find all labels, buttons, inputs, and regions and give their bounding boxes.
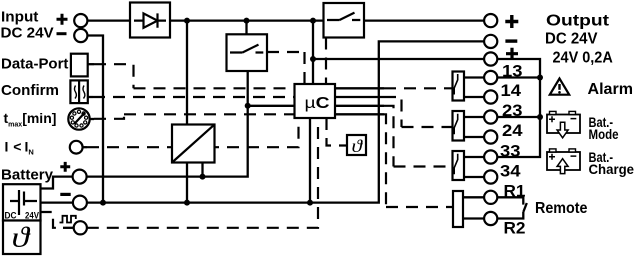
wire dashed output switch control [325,38,327,85]
wire dashed confirm to uC [93,96,295,98]
battery temperature sensor T2 box [3,221,41,255]
wire battery sense to uC pin [248,105,295,107]
battery B1 box with capacitor symbol [3,184,41,220]
switch S2 battery switch box [227,34,268,71]
wire converter bottom-left stub to 0V rail [186,163,188,203]
confirm button box [70,80,87,103]
data-port connector box [71,54,88,77]
terminal output +24V 0,2A [484,52,497,65]
wire pulse terminal left stub [63,227,74,229]
wire output switch to output+ terminal [364,19,484,21]
svg-text:DC: DC [5,211,17,221]
svg-text:Mode: Mode [589,126,619,142]
wire dashed battery box to pulse terminal [40,212,62,228]
wire aux +24V 0,2A rail [313,58,484,60]
wire relay1 contact to terminal 14 [464,96,484,98]
wire dashed uC to relay2 [384,97,453,127]
wire uC right pin 2 solid run [335,96,384,98]
terminal input+ [74,14,87,27]
wire I<IN stub [83,146,87,148]
label output plus sign [505,15,518,28]
battery mode indicator icon [547,111,580,137]
temperature sensor T1 box [347,135,366,156]
label input minus sign [57,32,67,35]
wire relay3 contact to terminal 34 [464,176,484,178]
terminal 13 [484,71,497,84]
wire output- with vertical and 0V bottom rail [87,41,484,202]
svg-text:24V: 24V [25,211,39,221]
wire battery box to battery+ terminal [39,177,73,189]
svg-text:14: 14 [501,81,522,100]
terminal input- [74,29,87,42]
wire +24V rail diode to output switch [170,19,324,21]
wire dashed I<IN to uC bottom pin [87,118,299,147]
svg-text:Data-Port: Data-Port [1,56,68,73]
terminal 23 [484,110,497,123]
svg-text:R2: R2 [504,219,526,238]
wire dashed uC to temperature sensor [327,118,348,146]
wire input- stub and vertical down [88,36,104,203]
relay K3 contact box (33/34) [453,151,465,180]
svg-text:24V 0,2A: 24V 0,2A [553,50,614,67]
wire dashed tmax to uC [94,114,295,119]
terminal output- [484,35,497,48]
svg-text:Confirm: Confirm [1,82,59,99]
switch S1 output switch box [324,3,365,38]
wire remote switch R2 side [497,212,523,219]
wire relay1 contact to terminal 13 [464,76,484,78]
wire relay2 contact to terminal 24 [464,136,484,138]
wire rail drop to battery switch [245,21,247,35]
svg-text:34: 34 [500,161,521,180]
wire remote box to terminal R2 [463,217,484,219]
wire aux rail extension to relay bus with taps to 13 23 33 [497,59,540,157]
wire confirm stub [88,96,93,98]
wire uC right pin 4 solid run [335,113,384,115]
wire tap to terminal 13 [497,76,540,78]
label battery plus sign [60,162,70,172]
wire tap to terminal 23 [497,116,540,118]
tmax rotary selector [68,108,89,129]
wire input+ to diode [88,19,131,21]
terminal R1 [484,191,497,204]
wire battery box to battery- terminal [39,201,73,203]
svg-text:Battery: Battery [1,167,54,184]
terminal 33 [484,150,497,163]
terminal 34 [484,170,497,183]
node junction dots [100,18,543,206]
diode D1 box [130,3,170,38]
label battery minus sign [60,193,70,196]
wire dashed data-port to uC [94,64,295,88]
svg-text:33: 33 [500,141,521,160]
wire data-port stub [88,63,94,65]
alarm warning triangle [550,79,569,95]
remote input box [453,191,463,227]
wire rail drop to converter [186,21,188,125]
wire converter bottom-right stub to battery+ line [201,163,203,177]
terminal battery- [73,196,87,210]
wire dashed battery pulse signal to uC bottom pin [87,118,318,228]
wire uC right pin 1 solid run [335,87,384,89]
pulse waveform symbol [60,216,76,223]
svg-text:23: 23 [502,101,523,120]
wire dashed uC to remote box [384,114,453,207]
svg-text:DC 24V: DC 24V [1,24,54,41]
battery charge indicator icon [547,149,580,174]
terminal I<IN threshold [70,141,83,154]
wire battery+ line up through battery switch [87,71,248,177]
label input plus sign [57,14,68,25]
svg-text:Alarm: Alarm [588,81,634,98]
terminal output+ [484,14,497,27]
terminal battery+ [73,170,87,184]
svg-text:ϑ: ϑ [12,223,31,254]
svg-text:DC 24V: DC 24V [545,30,598,47]
wire remote switch R1 side [497,197,523,204]
op-amp U1 microcontroller box [295,84,336,118]
terminal 14 [484,90,497,103]
wire rail drop to aux rail junction and uC top [312,21,314,84]
wire tmax rotary stub [90,118,94,120]
terminal R2 [484,212,497,225]
wire uC right pin 3 solid run [335,105,384,107]
svg-text:R1: R1 [504,181,526,200]
wire dashed uC to relay3 [384,106,453,167]
relay K2 contact box (23/24) [453,111,465,141]
wire remote switch blade [523,203,527,212]
wire dashed uC to relay1 [384,87,453,89]
svg-text:Remote: Remote [535,200,588,217]
wire remote box to terminal R1 [463,196,484,198]
label output minus sign [505,39,517,42]
wire relay2 contact to terminal 23 [464,116,484,118]
svg-text:Input: Input [1,9,38,26]
terminal 24 [484,130,497,143]
relay K1 contact box (13/14) [453,72,465,101]
svg-text:Charge: Charge [589,161,635,177]
label aux output plus sign [506,48,518,60]
terminal battery pulse signal [74,221,87,234]
converter U2 DC/DC charger box [172,125,215,163]
svg-text:24: 24 [502,121,523,140]
svg-text:ϑ: ϑ [352,136,364,156]
wire relay3 contact to terminal 33 [464,156,484,158]
wire uC bottom pin to 0V rail [309,118,311,203]
svg-text:Output: Output [546,12,610,29]
wire dashed battery switch control [267,52,305,84]
svg-text:13: 13 [502,62,523,81]
svg-text:µC: µC [305,95,330,112]
